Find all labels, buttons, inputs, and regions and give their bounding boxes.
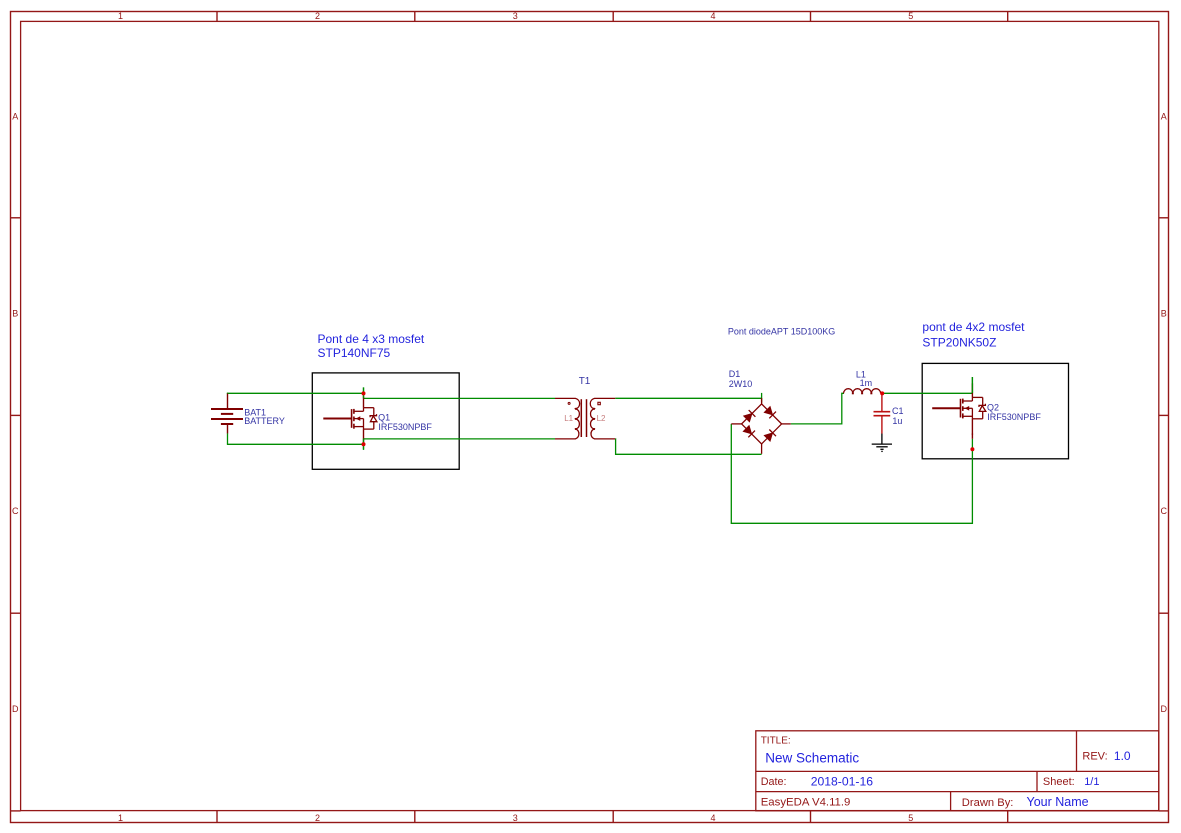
wire overdraw on Q2 drain pin [971,377,973,393]
wire battery+ riser [227,393,229,394]
svg-text:A: A [1161,112,1167,122]
svg-text:B: B [1161,309,1167,319]
polarity dot primary [568,402,570,404]
svg-text:Date:: Date: [761,776,787,788]
svg-text:C1: C1 [892,406,904,416]
svg-text:T1: T1 [579,376,591,387]
transistor Q2 (IRF530NPBF) [932,383,986,434]
polarity dot secondary [598,402,600,404]
junction at Q1 drain [362,391,366,395]
svg-text:2018-01-16: 2018-01-16 [811,775,874,789]
inductor L1 [844,389,881,394]
svg-text:L2: L2 [597,414,606,423]
svg-text:C: C [1161,506,1168,516]
wire overdraw on Q1 source pin [363,439,365,450]
junction at Q2 source [970,447,974,451]
wire overdraw on Q1 drain pin [363,387,365,398]
wire transformer secondary bottom down [615,439,761,454]
svg-text:STP140NF75: STP140NF75 [318,346,391,360]
svg-text:1m: 1m [860,378,873,388]
wire battery- vertical [227,433,229,444]
bridge diode bottom-left [743,426,751,434]
svg-text:pont de 4x2 mosfet: pont de 4x2 mosfet [922,320,1025,334]
svg-text:1u: 1u [892,416,902,426]
svg-text:STP20NK50Z: STP20NK50Z [922,336,996,350]
svg-text:2: 2 [315,11,320,21]
svg-text:A: A [12,112,18,122]
svg-text:1: 1 [118,813,123,823]
wire Q1 source to transformer primary bottom [364,438,556,440]
wire L1 to Q2 drain [882,392,972,394]
capacitor C1 [881,393,883,411]
svg-text:D: D [1161,704,1168,714]
wire battery- to Q1 source [227,443,364,445]
svg-text:3: 3 [513,813,518,823]
bridge diode top-right [764,407,772,415]
svg-text:2W10: 2W10 [729,379,753,389]
rectangle around Q1 (mosfet bridge 1) [312,373,459,469]
wire stub to Q1 drain pin end [363,387,365,393]
svg-text:D1: D1 [729,369,741,379]
svg-text:Pont de 4 x3 mosfet: Pont de 4 x3 mosfet [318,332,425,346]
svg-text:Q2: Q2 [987,402,999,412]
wire battery+ to Q1 drain [227,392,364,394]
svg-text:Pont diodeAPT 15D100KG: Pont diodeAPT 15D100KG [728,326,835,336]
svg-text:REV:: REV: [1082,751,1107,763]
svg-text:4: 4 [710,11,715,21]
svg-text:3: 3 [513,11,518,21]
transistor Q1 (IRF530NPBF) [323,394,377,445]
ground symbol [881,434,883,444]
svg-text:2: 2 [315,813,320,823]
rectangle around Q2 (mosfet bridge 2) [922,363,1068,458]
svg-text:1.0: 1.0 [1114,749,1131,763]
wire bridge+ to L1 [791,393,844,424]
title block [756,731,1159,811]
svg-text:B: B [12,309,18,319]
svg-text:BATTERY: BATTERY [244,416,285,426]
junction at Q1 source [362,442,366,446]
wire bridge- to Q2 source (bottom loop) [731,424,972,523]
svg-text:IRF530NPBF: IRF530NPBF [987,412,1041,422]
svg-text:Your Name: Your Name [1027,795,1089,809]
junction at L1/C1 node [880,391,884,395]
svg-text:New Schematic: New Schematic [765,750,859,765]
wire transformer secondary top to bridge [615,397,761,399]
svg-text:D: D [12,704,19,714]
wire stub to Q2 drain pin end [971,377,973,393]
wire stub below Q1 source junction [363,444,365,449]
battery BAT1 [211,394,243,434]
transformer T1 [555,398,615,439]
svg-text:1: 1 [118,11,123,21]
svg-text:4: 4 [710,813,715,823]
wire Q1 drain to transformer primary top [364,397,556,399]
bridge D1 pins [761,398,763,404]
svg-text:IRF530NPBF: IRF530NPBF [378,422,432,432]
svg-text:L1: L1 [564,414,573,423]
svg-text:1/1: 1/1 [1084,776,1099,788]
svg-text:C: C [12,506,19,516]
bridge diode top-left [744,414,752,422]
svg-text:TITLE:: TITLE: [761,736,791,747]
wire stub at bridge top pin [761,393,763,403]
svg-text:EasyEDA V4.11.9: EasyEDA V4.11.9 [761,796,851,808]
svg-text:5: 5 [908,11,913,21]
svg-text:Q1: Q1 [378,413,390,423]
svg-text:Sheet:: Sheet: [1043,776,1075,788]
svg-text:Drawn By:: Drawn By: [962,797,1014,809]
transformer core [580,399,582,437]
svg-text:5: 5 [908,813,913,823]
diode bridge D1 (2W10) [742,404,782,444]
bridge diode bottom-right [764,433,772,441]
